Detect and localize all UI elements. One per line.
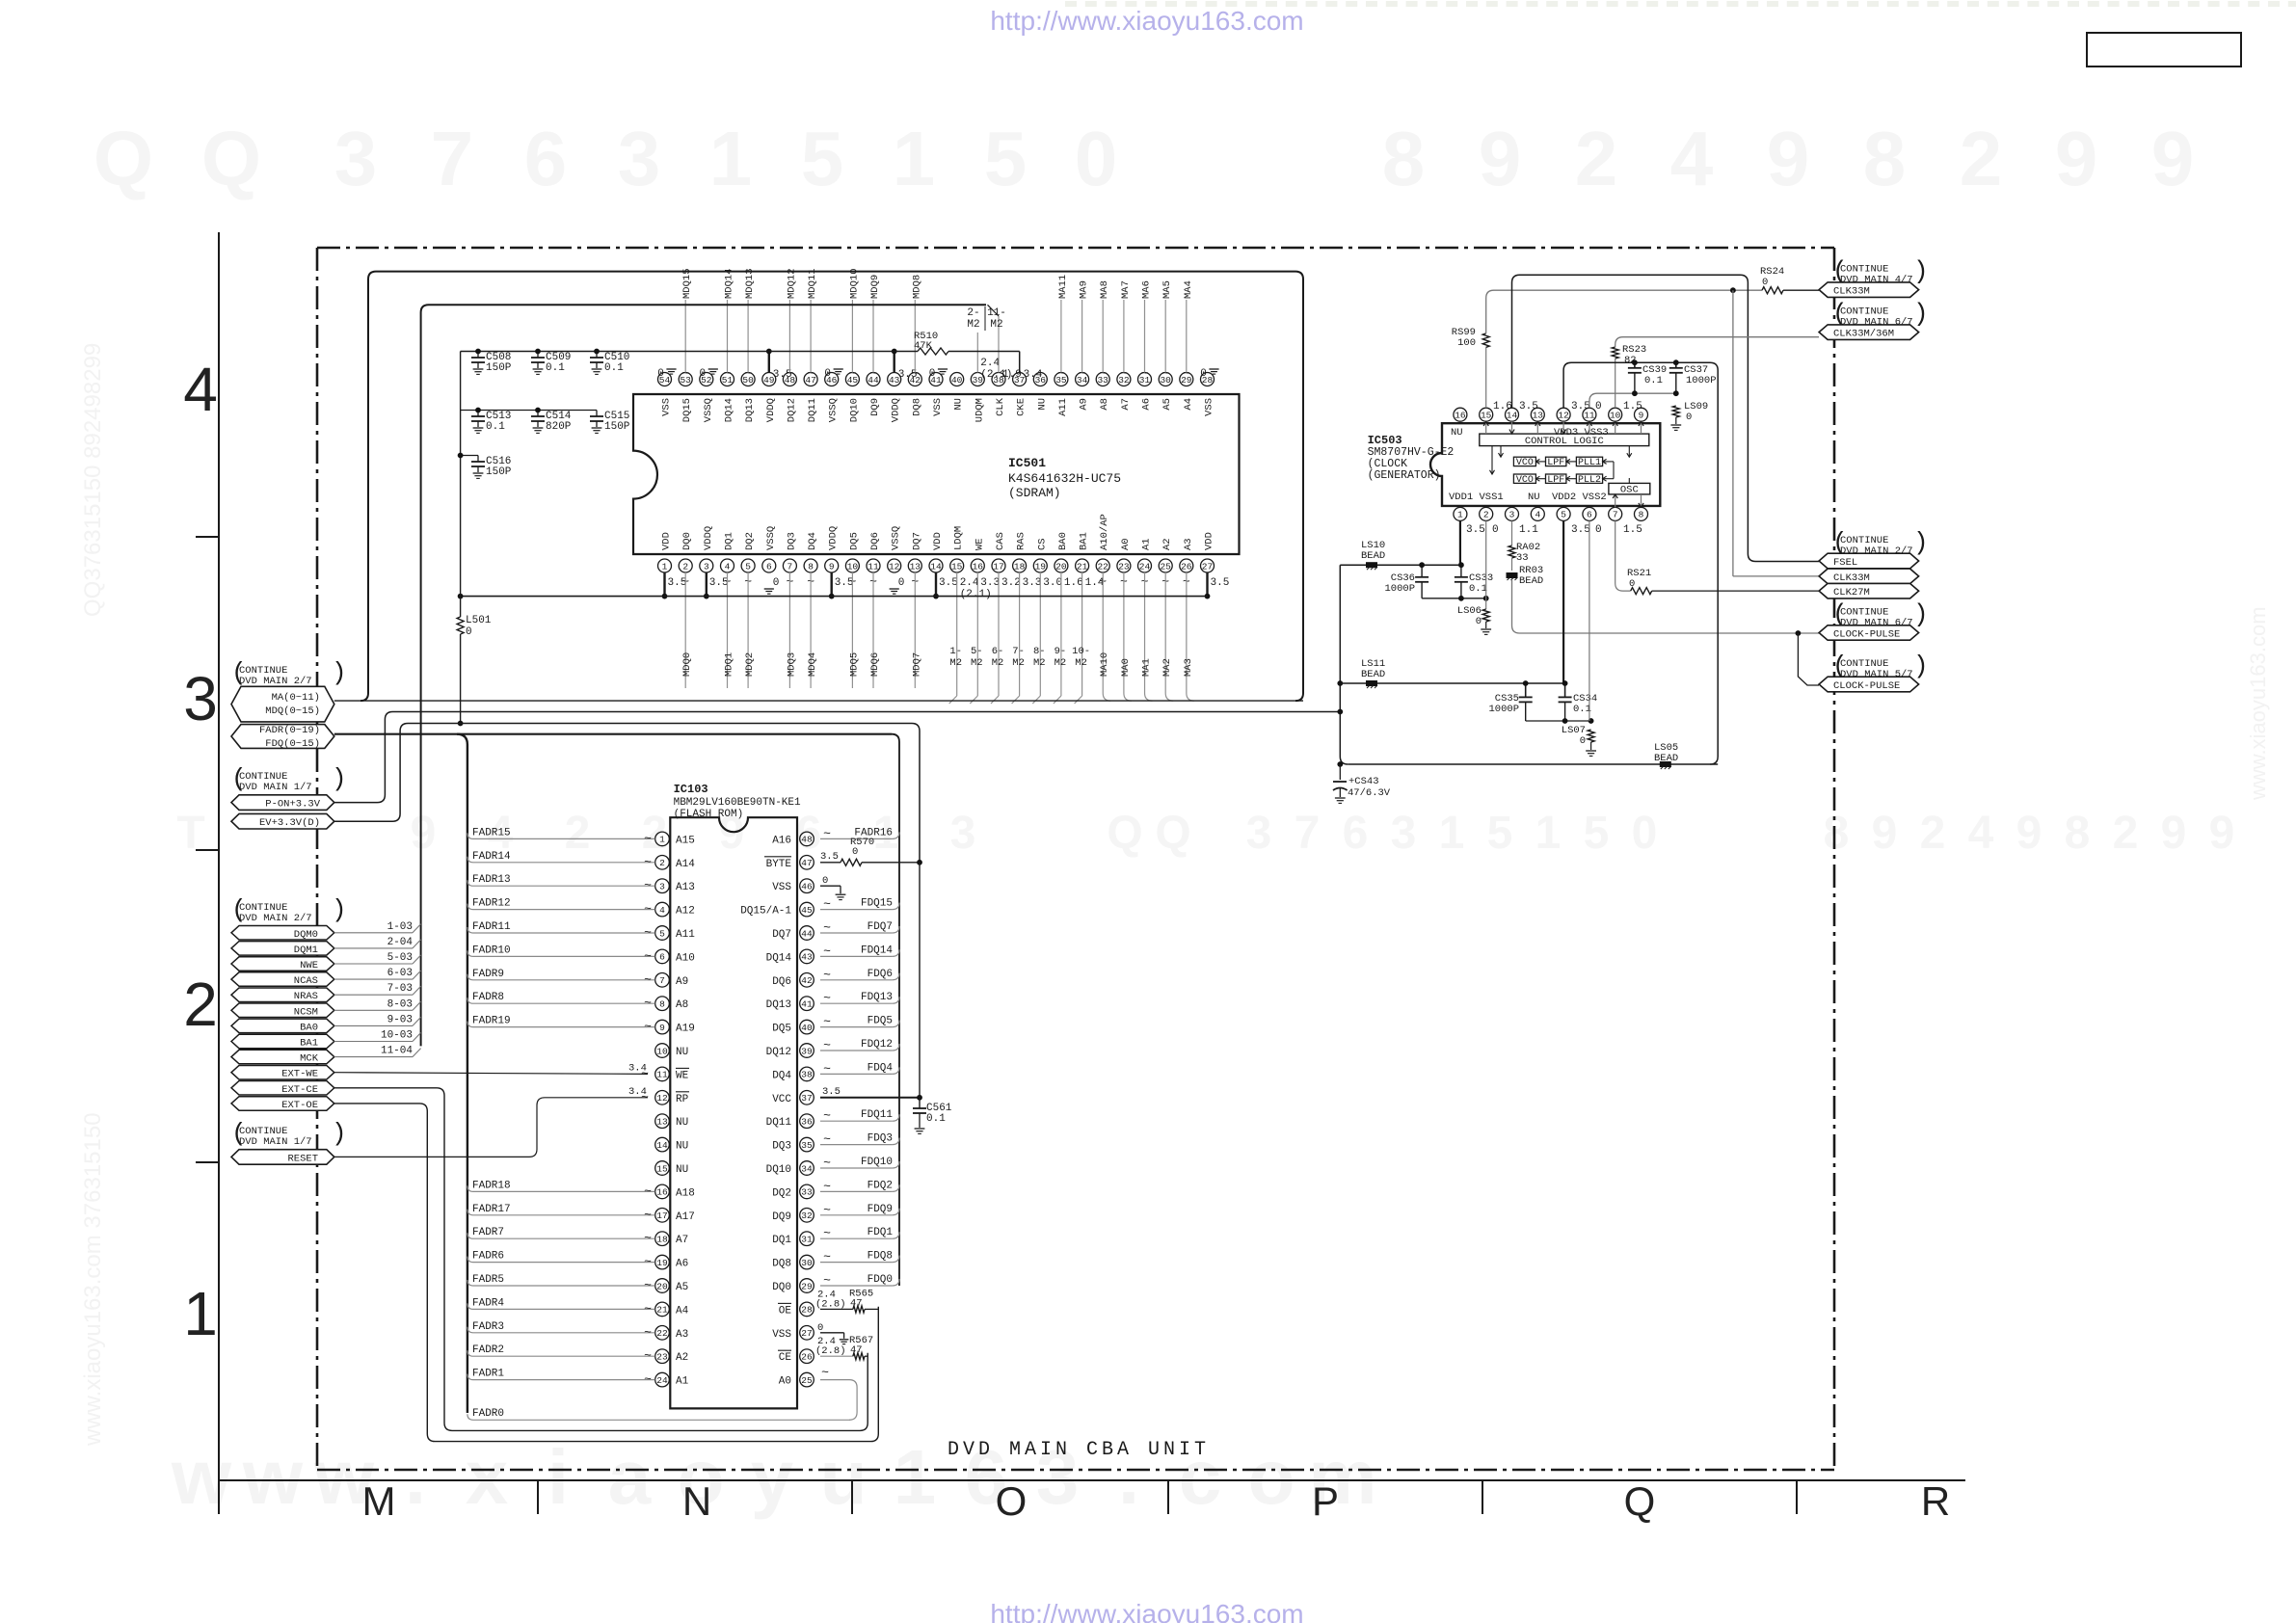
svg-text:5: 5 (745, 561, 751, 572)
svg-text:DQM0: DQM0 (294, 929, 318, 941)
svg-text:9: 9 (2209, 808, 2235, 859)
svg-text:MDQ(0~15): MDQ(0~15) (265, 705, 320, 717)
svg-text:MA2: MA2 (1161, 658, 1173, 677)
svg-text:LPF: LPF (1547, 475, 1564, 486)
svg-text:3.5: 3.5 (820, 851, 839, 863)
svg-text:0: 0 (824, 368, 831, 380)
svg-text:12: 12 (1558, 411, 1569, 421)
svg-text:MDQ6: MDQ6 (869, 652, 881, 677)
svg-text:25: 25 (1160, 561, 1171, 572)
svg-text:NU: NU (1528, 492, 1540, 503)
svg-text:DQ4: DQ4 (772, 1070, 791, 1081)
svg-text:19: 19 (656, 1258, 668, 1268)
svg-text:1.6: 1.6 (1064, 577, 1083, 589)
svg-text:3: 3 (704, 561, 709, 572)
svg-text:37: 37 (801, 1093, 812, 1104)
svg-text:~: ~ (644, 1208, 652, 1222)
svg-text:10: 10 (1610, 411, 1621, 421)
svg-text:(2.8): (2.8) (815, 1345, 846, 1357)
svg-text:48: 48 (801, 835, 813, 845)
svg-text:QQ376315150 892498299: QQ376315150 892498299 (80, 343, 106, 617)
svg-text:2-: 2- (967, 307, 979, 319)
svg-text:10-03: 10-03 (381, 1030, 413, 1042)
svg-text:0: 0 (1762, 277, 1768, 288)
svg-text:A4: A4 (676, 1305, 689, 1317)
svg-text:CLK33M: CLK33M (1833, 286, 1870, 298)
svg-text:PLL1: PLL1 (1578, 458, 1601, 468)
svg-text:RAS: RAS (1016, 532, 1028, 550)
svg-text:FDQ7: FDQ7 (868, 921, 893, 933)
svg-text:M2: M2 (971, 657, 983, 669)
svg-text:FADR5: FADR5 (472, 1274, 504, 1286)
svg-text:DVD MAIN 2/7: DVD MAIN 2/7 (239, 913, 312, 924)
svg-text:3: 3 (659, 882, 665, 892)
svg-text:IC501: IC501 (1008, 456, 1046, 470)
svg-text:3.3: 3.3 (1023, 577, 1042, 589)
svg-text:~: ~ (644, 996, 652, 1010)
svg-text:VCO: VCO (1516, 458, 1534, 468)
svg-text:A2: A2 (676, 1352, 688, 1364)
svg-text:~: ~ (644, 878, 652, 892)
svg-text:11: 11 (868, 561, 879, 572)
svg-text:BEAD: BEAD (1361, 550, 1385, 562)
svg-text:0: 0 (1492, 524, 1499, 536)
svg-text:VSSQ: VSSQ (891, 526, 902, 550)
svg-text:VDD1 VSS1: VDD1 VSS1 (1449, 492, 1504, 503)
svg-text:A16: A16 (772, 835, 791, 846)
svg-text:29: 29 (801, 1281, 813, 1291)
svg-text:DQ2: DQ2 (772, 1187, 791, 1199)
svg-text:3: 3 (1391, 808, 1417, 859)
svg-text:23: 23 (1118, 561, 1130, 572)
svg-text:FADR17: FADR17 (472, 1204, 511, 1215)
svg-text:VDD: VDD (1204, 532, 1215, 550)
svg-text:2: 2 (1920, 808, 1946, 859)
svg-text:MA1: MA1 (1141, 658, 1153, 677)
svg-text:DVD MAIN 1/7: DVD MAIN 1/7 (239, 782, 312, 793)
svg-text:3: 3 (618, 116, 661, 201)
svg-text:39: 39 (801, 1046, 813, 1056)
svg-text:~: ~ (644, 1184, 652, 1198)
svg-text:DQ5: DQ5 (772, 1024, 791, 1035)
svg-text:3.3: 3.3 (980, 577, 1000, 589)
svg-text:VDD: VDD (932, 532, 944, 550)
svg-text:3.5: 3.5 (1571, 401, 1590, 412)
svg-text:OE: OE (779, 1305, 792, 1317)
svg-text:8: 8 (1639, 510, 1644, 520)
svg-text:MA8: MA8 (1099, 280, 1110, 299)
svg-text:3: 3 (950, 808, 976, 859)
svg-text:): ) (1913, 300, 1929, 329)
svg-text:2.4: 2.4 (980, 358, 1000, 369)
svg-text:): ) (332, 1119, 347, 1148)
svg-text:9: 9 (2016, 808, 2042, 859)
svg-text:DQ8: DQ8 (772, 1259, 791, 1270)
svg-text:~: ~ (823, 1203, 831, 1217)
svg-text:VSS: VSS (1204, 398, 1215, 416)
svg-text:www.xiaoyu163.com 376315150: www.xiaoyu163.com 376315150 (80, 1112, 106, 1447)
svg-text:FADR(0~19): FADR(0~19) (259, 725, 320, 736)
svg-text:MDQ12: MDQ12 (786, 268, 797, 299)
svg-text:4: 4 (725, 561, 731, 572)
svg-text:0: 0 (466, 626, 472, 638)
svg-text:MDQ2: MDQ2 (744, 652, 756, 677)
svg-text:FADR8: FADR8 (472, 992, 504, 1003)
svg-text:y: y (751, 1434, 794, 1520)
svg-text:DVD MAIN 2/7: DVD MAIN 2/7 (239, 676, 312, 687)
svg-text:0: 0 (817, 1322, 823, 1334)
svg-text:MDQ4: MDQ4 (807, 652, 818, 677)
svg-text:FADR7: FADR7 (472, 1227, 504, 1238)
svg-text:DQ15: DQ15 (681, 398, 693, 422)
svg-text:4: 4 (1535, 510, 1540, 520)
svg-text:0: 0 (1476, 616, 1482, 627)
svg-text:FADR13: FADR13 (472, 874, 511, 886)
svg-text:MA5: MA5 (1161, 280, 1173, 299)
svg-text:35: 35 (801, 1140, 813, 1151)
svg-text:26: 26 (1181, 561, 1192, 572)
svg-text:): ) (1913, 652, 1929, 680)
svg-text:31: 31 (801, 1235, 813, 1245)
svg-text:VDDQ: VDDQ (891, 398, 902, 422)
svg-text:~: ~ (823, 968, 831, 982)
svg-text:0.1: 0.1 (546, 362, 565, 374)
svg-text:12: 12 (889, 561, 900, 572)
svg-text:12: 12 (656, 1093, 668, 1104)
svg-text:A8: A8 (1099, 398, 1110, 411)
svg-text:A0: A0 (779, 1376, 791, 1388)
svg-text:1: 1 (183, 1279, 218, 1348)
svg-text:CAS: CAS (995, 532, 1006, 550)
svg-text:2-04: 2-04 (387, 937, 414, 948)
svg-text:CLK27M: CLK27M (1833, 587, 1870, 599)
svg-text:47: 47 (850, 1344, 863, 1356)
svg-text:MDQ0: MDQ0 (681, 652, 693, 677)
svg-text:3: 3 (1509, 510, 1515, 520)
svg-text:0: 0 (699, 368, 706, 380)
svg-text:PLL2: PLL2 (1578, 475, 1601, 486)
svg-text:MA10: MA10 (1099, 652, 1110, 677)
svg-text:MDQ5: MDQ5 (848, 652, 860, 677)
svg-text:A3: A3 (1183, 538, 1194, 550)
svg-text:26: 26 (801, 1352, 813, 1363)
svg-text:FADR12: FADR12 (472, 898, 511, 910)
svg-text:8: 8 (659, 999, 665, 1010)
svg-text:16: 16 (656, 1187, 668, 1198)
svg-text:A5: A5 (1161, 398, 1173, 411)
svg-text:42: 42 (801, 975, 813, 986)
svg-text:FADR6: FADR6 (472, 1251, 504, 1263)
svg-text:15: 15 (656, 1163, 668, 1174)
svg-text:1-: 1- (949, 646, 962, 657)
svg-text:A13: A13 (676, 882, 695, 893)
svg-text:RESET: RESET (287, 1153, 318, 1164)
svg-text:NU: NU (1036, 398, 1048, 411)
svg-text:150P: 150P (486, 466, 512, 478)
svg-text:1000P: 1000P (1384, 583, 1415, 595)
svg-text:VCC: VCC (772, 1094, 791, 1105)
svg-text:FDQ13: FDQ13 (861, 992, 893, 1003)
svg-text:A10: A10 (676, 952, 695, 964)
svg-text:VSS: VSS (772, 882, 791, 893)
svg-text:1000P: 1000P (1488, 704, 1519, 715)
svg-text:DQ1: DQ1 (772, 1235, 791, 1246)
svg-text:0: 0 (898, 577, 905, 589)
svg-text:17: 17 (993, 561, 1003, 572)
svg-text:32: 32 (801, 1211, 813, 1221)
svg-text:DQ7: DQ7 (911, 532, 922, 550)
svg-text:~: ~ (823, 1179, 831, 1193)
svg-text:FDQ1: FDQ1 (868, 1227, 894, 1238)
svg-text:~: ~ (644, 1231, 652, 1245)
svg-text:46: 46 (801, 882, 813, 892)
svg-text:28: 28 (801, 1305, 813, 1316)
svg-text:BA1: BA1 (300, 1038, 318, 1050)
svg-text:0: 0 (1075, 116, 1118, 201)
svg-text:10-: 10- (1072, 646, 1090, 657)
svg-text:L501: L501 (466, 615, 492, 626)
svg-text:2: 2 (183, 970, 218, 1039)
svg-text:6: 6 (524, 116, 568, 201)
svg-text:VSSQ: VSSQ (765, 526, 777, 550)
svg-text:EXT-WE: EXT-WE (281, 1069, 318, 1080)
svg-text:21: 21 (1077, 561, 1088, 572)
svg-text:9: 9 (829, 561, 835, 572)
svg-text:6: 6 (659, 952, 665, 963)
svg-text:5-: 5- (971, 646, 983, 657)
svg-text:9: 9 (1479, 116, 1522, 201)
svg-text:FDQ0: FDQ0 (868, 1274, 893, 1286)
svg-text:NU: NU (676, 1117, 688, 1129)
svg-text:9: 9 (411, 808, 437, 859)
svg-text:FADR15: FADR15 (472, 827, 511, 838)
svg-text:MDQ13: MDQ13 (744, 268, 756, 299)
svg-text:~: ~ (644, 1372, 652, 1387)
svg-text:A5: A5 (676, 1282, 688, 1293)
svg-text:NU: NU (676, 1164, 688, 1176)
svg-text:http://www.xiaoyu163.com: http://www.xiaoyu163.com (990, 1599, 1303, 1623)
svg-text:4: 4 (1968, 808, 1994, 859)
svg-text:11-04: 11-04 (381, 1046, 413, 1057)
svg-text:O: O (996, 1478, 1028, 1524)
svg-text:CONTROL LOGIC: CONTROL LOGIC (1525, 436, 1604, 447)
svg-text:DQ0: DQ0 (772, 1282, 791, 1293)
svg-text:DQ0: DQ0 (681, 532, 693, 550)
svg-text:BEAD: BEAD (1519, 575, 1543, 587)
svg-text:6-: 6- (992, 646, 1004, 657)
svg-text:FADR11: FADR11 (472, 921, 511, 933)
svg-text:21: 21 (656, 1305, 668, 1316)
svg-text:7: 7 (788, 561, 793, 572)
svg-text:NWE: NWE (300, 960, 318, 971)
svg-text:9: 9 (2055, 116, 2098, 201)
svg-text:1: 1 (1535, 808, 1562, 859)
svg-text:LDQM: LDQM (953, 526, 965, 550)
svg-text:18: 18 (1014, 561, 1026, 572)
svg-text:UDQM: UDQM (974, 398, 985, 422)
svg-text:MA7: MA7 (1120, 280, 1132, 299)
svg-text:MDQ14: MDQ14 (724, 268, 735, 299)
svg-text:~: ~ (644, 1020, 652, 1034)
svg-text:EXT-OE: EXT-OE (281, 1100, 318, 1111)
svg-text:25: 25 (801, 1375, 813, 1386)
svg-text:~: ~ (823, 1015, 831, 1029)
svg-text:7: 7 (431, 116, 474, 201)
svg-text:MA4: MA4 (1183, 280, 1194, 299)
svg-text:WE: WE (974, 538, 985, 550)
svg-text:14: 14 (656, 1140, 668, 1151)
svg-text:VDD: VDD (661, 532, 673, 550)
svg-text:VDD2 VSS2: VDD2 VSS2 (1552, 492, 1607, 503)
svg-text:x: x (466, 1434, 509, 1520)
svg-text:FADR0: FADR0 (472, 1408, 504, 1420)
svg-text:0: 0 (929, 368, 936, 380)
svg-text:(SDRAM): (SDRAM) (1008, 486, 1061, 500)
svg-text:MDQ10: MDQ10 (848, 268, 860, 299)
svg-text:): ) (1913, 257, 1929, 286)
svg-text:M2: M2 (1075, 657, 1087, 669)
svg-text:13: 13 (656, 1117, 668, 1128)
svg-text:18: 18 (656, 1235, 668, 1245)
svg-text:CLK: CLK (995, 397, 1006, 416)
svg-text:MBM29LV160BE90TN-KE1: MBM29LV160BE90TN-KE1 (674, 797, 801, 809)
svg-text:FDQ3: FDQ3 (868, 1133, 893, 1145)
svg-text:i: i (547, 1434, 569, 1520)
svg-text:FADR4: FADR4 (472, 1297, 504, 1309)
svg-text:~: ~ (823, 1250, 831, 1264)
svg-text:MDQ15: MDQ15 (681, 268, 693, 299)
svg-text:~: ~ (823, 1132, 831, 1147)
svg-text:4: 4 (659, 905, 665, 916)
svg-text:A2: A2 (1161, 538, 1173, 550)
svg-text:VSSQ: VSSQ (828, 398, 840, 422)
svg-text:a: a (608, 1434, 652, 1520)
svg-text:8-03: 8-03 (387, 998, 413, 1010)
svg-text:Q: Q (93, 116, 153, 201)
svg-text:DQ11: DQ11 (766, 1117, 792, 1129)
svg-text:~: ~ (823, 991, 831, 1005)
svg-text:40: 40 (951, 375, 963, 386)
svg-text:DQ6: DQ6 (772, 976, 791, 988)
svg-text:14: 14 (930, 561, 942, 572)
svg-text:DQ13: DQ13 (744, 398, 756, 422)
svg-text:1: 1 (1457, 510, 1463, 520)
svg-text:DQ4: DQ4 (807, 532, 818, 550)
svg-text:3.5: 3.5 (1519, 401, 1538, 412)
svg-text:9-: 9- (1055, 646, 1067, 657)
svg-text:DQ6: DQ6 (869, 532, 881, 550)
svg-text:MA9: MA9 (1079, 280, 1090, 299)
svg-text:CLOCK-PULSE: CLOCK-PULSE (1833, 629, 1900, 641)
svg-text:17: 17 (656, 1211, 667, 1221)
svg-text:M2: M2 (992, 657, 1004, 669)
svg-text:3.5: 3.5 (822, 1086, 841, 1098)
svg-text:DVD MAIN CBA UNIT: DVD MAIN CBA UNIT (948, 1439, 1210, 1461)
svg-text:8: 8 (1863, 116, 1907, 201)
svg-text:10: 10 (847, 561, 859, 572)
svg-text:DQ9: DQ9 (869, 398, 881, 416)
svg-text:0: 0 (1595, 524, 1602, 536)
svg-text:FDQ9: FDQ9 (868, 1204, 893, 1215)
svg-text:M2: M2 (1055, 657, 1067, 669)
svg-text:47K: 47K (914, 340, 933, 352)
svg-text:~: ~ (823, 826, 831, 840)
svg-text:0: 0 (773, 577, 780, 589)
svg-text:9-03: 9-03 (387, 1014, 413, 1025)
svg-text:VDDQ: VDDQ (703, 526, 714, 550)
svg-text:0: 0 (1595, 401, 1602, 412)
svg-text:1.5: 1.5 (1623, 401, 1642, 412)
svg-text:FDQ8: FDQ8 (868, 1251, 893, 1263)
svg-text:6: 6 (1343, 808, 1369, 859)
svg-text:820P: 820P (546, 421, 572, 433)
svg-text:FDQ2: FDQ2 (868, 1180, 893, 1191)
svg-text:27: 27 (801, 1328, 812, 1339)
svg-text:7-03: 7-03 (387, 983, 413, 995)
svg-text:1.1: 1.1 (1519, 524, 1538, 536)
svg-text:20: 20 (656, 1281, 668, 1291)
svg-text:0: 0 (1629, 578, 1635, 590)
svg-text:FADR1: FADR1 (472, 1369, 504, 1380)
svg-text:5: 5 (1584, 808, 1610, 859)
svg-text:4: 4 (1670, 116, 1714, 201)
svg-text:): ) (332, 764, 347, 793)
svg-text:6: 6 (1587, 510, 1592, 520)
svg-text:8: 8 (1382, 116, 1426, 201)
svg-text:BYTE: BYTE (766, 859, 792, 870)
svg-text:IC103: IC103 (674, 783, 708, 796)
svg-text:3: 3 (334, 116, 378, 201)
svg-text:2: 2 (1575, 116, 1618, 201)
svg-text:MDQ3: MDQ3 (786, 652, 797, 677)
svg-text:Q: Q (1155, 808, 1190, 859)
svg-text:2: 2 (565, 808, 591, 859)
svg-text:9: 9 (2161, 808, 2187, 859)
svg-text:Q: Q (1107, 808, 1142, 859)
svg-text:0: 0 (852, 846, 858, 858)
svg-text:FDQ10: FDQ10 (861, 1157, 893, 1168)
svg-text:0.1: 0.1 (1644, 375, 1663, 386)
svg-text:): ) (332, 895, 347, 924)
svg-text:36: 36 (1035, 375, 1047, 386)
svg-text:NU: NU (676, 1141, 688, 1153)
svg-text:19: 19 (1035, 561, 1047, 572)
svg-text:0: 0 (657, 368, 664, 380)
svg-text:w: w (242, 1434, 304, 1520)
svg-text:VDDQ: VDDQ (828, 526, 840, 550)
svg-text:33: 33 (1516, 552, 1529, 564)
svg-text:): ) (332, 658, 347, 687)
svg-text:3.2: 3.2 (1001, 577, 1021, 589)
svg-text:3: 3 (183, 664, 218, 733)
svg-text:100: 100 (1457, 337, 1476, 349)
svg-text:1.6: 1.6 (1493, 401, 1512, 412)
svg-text:0.1: 0.1 (486, 421, 505, 433)
svg-text:A3: A3 (676, 1329, 688, 1341)
svg-text:7: 7 (1295, 808, 1321, 859)
svg-text:A1: A1 (1141, 538, 1153, 550)
svg-text:FADR3: FADR3 (472, 1321, 504, 1333)
svg-text:A14: A14 (676, 859, 695, 870)
svg-text:~: ~ (644, 831, 652, 845)
svg-text:DQ11: DQ11 (807, 398, 818, 422)
svg-text:3.0: 3.0 (1043, 577, 1062, 589)
svg-text:22: 22 (1097, 561, 1108, 572)
svg-text:47: 47 (850, 1297, 863, 1309)
svg-text:NU: NU (953, 398, 965, 411)
svg-text:w: w (171, 1434, 232, 1520)
svg-text:47: 47 (801, 858, 812, 868)
